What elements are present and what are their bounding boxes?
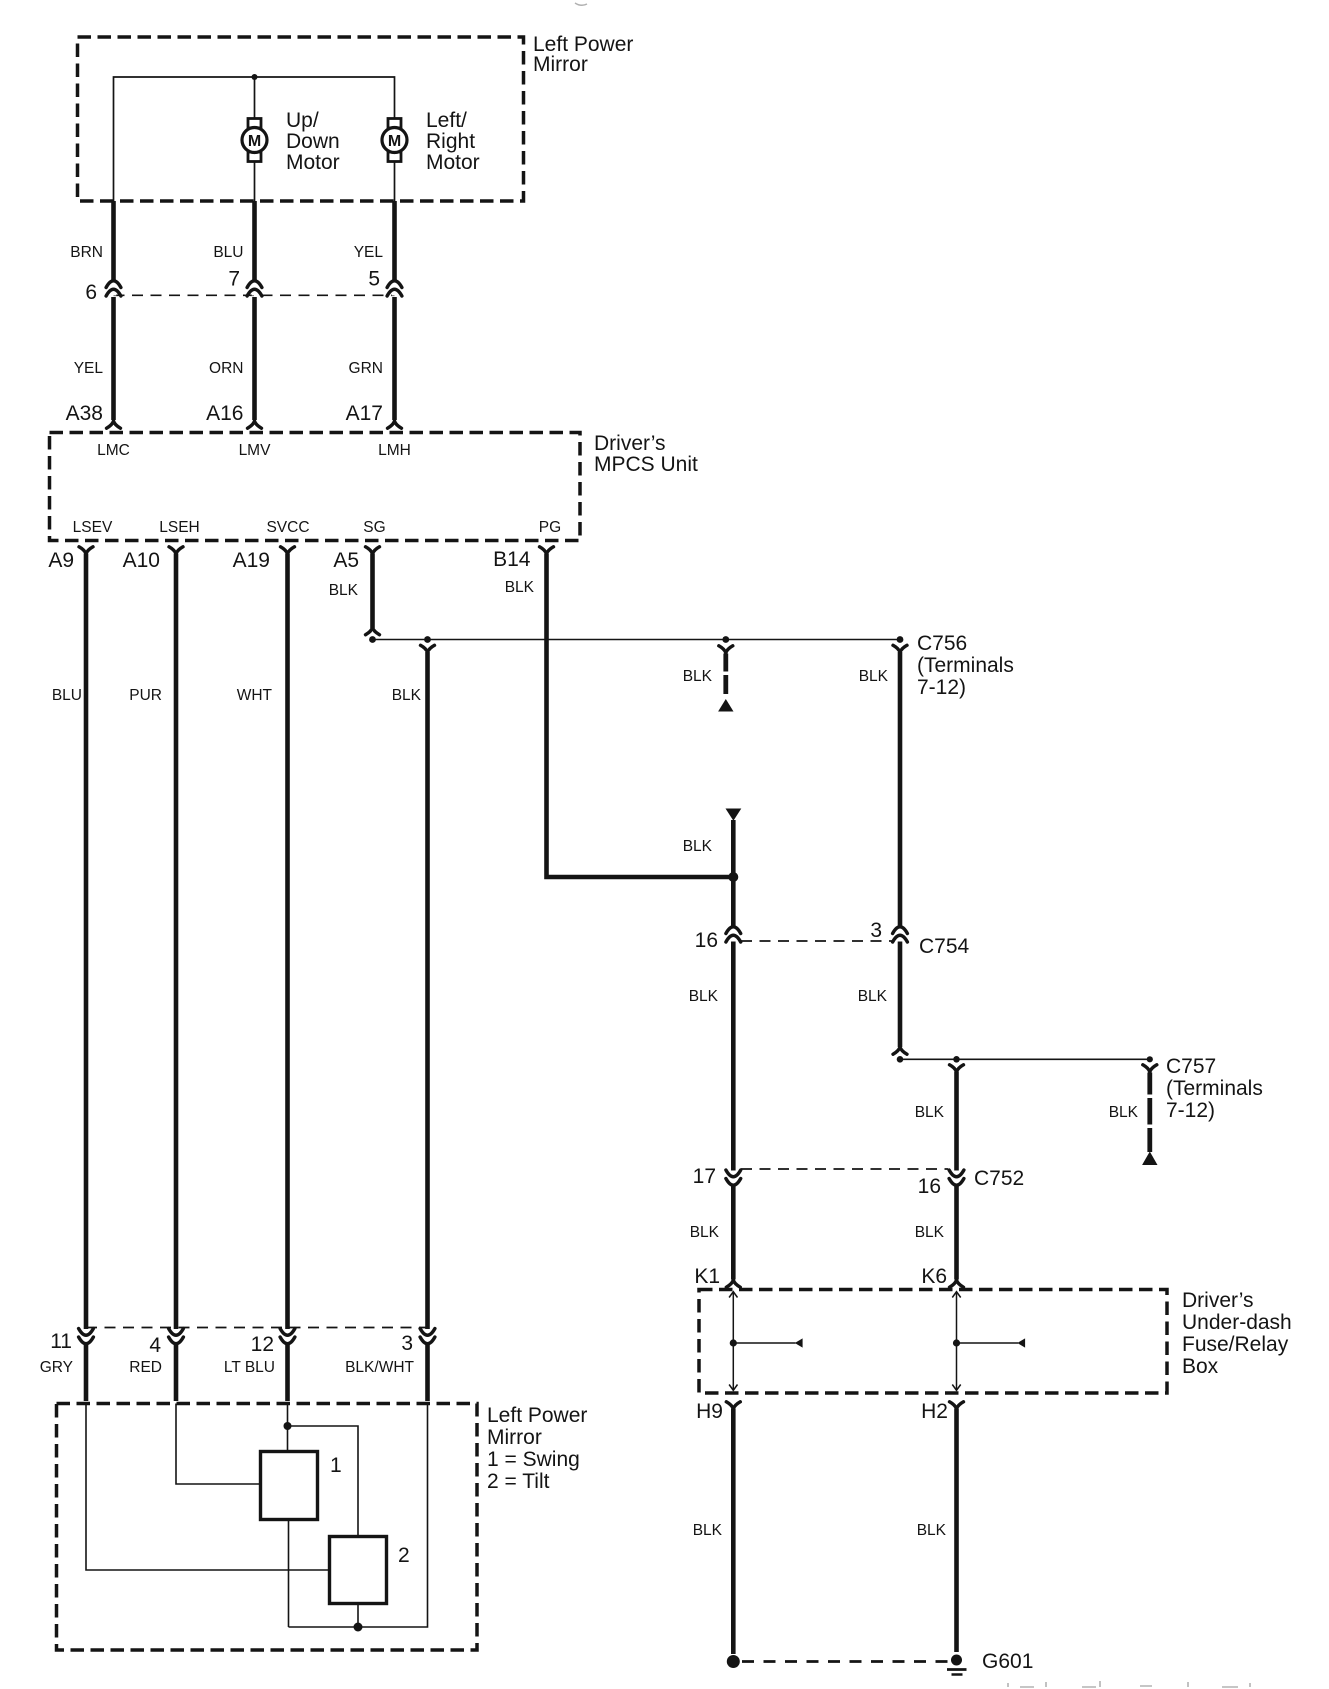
off-page arrow (down) into wire bbox=[726, 809, 742, 821]
svg-text:(Terminals: (Terminals bbox=[917, 654, 1014, 677]
svg-text:MPCS Unit: MPCS Unit bbox=[594, 453, 698, 476]
connector halves pin 5 bbox=[387, 281, 402, 296]
ground G601 bbox=[947, 1655, 967, 1675]
svg-text:11: 11 bbox=[50, 1330, 72, 1353]
connector halves C752 right bbox=[949, 1170, 964, 1185]
svg-text:K6: K6 bbox=[921, 1265, 947, 1288]
node: splice S6 bbox=[897, 1056, 904, 1063]
svg-text:2 = Tilt: 2 = Tilt bbox=[487, 1470, 550, 1493]
internal arrow left bbox=[795, 1338, 803, 1347]
C752 dashed link bbox=[741, 1168, 948, 1170]
svg-text:WHT: WHT bbox=[237, 687, 273, 704]
svg-text:BLK: BLK bbox=[683, 668, 713, 685]
svg-text:BLK/WHT: BLK/WHT bbox=[345, 1359, 414, 1376]
svg-text:Down: Down bbox=[286, 130, 340, 153]
wire: off-page stub (dashed) bbox=[723, 654, 728, 695]
terminal fork H2 bbox=[950, 1402, 964, 1409]
svg-text:1: 1 bbox=[330, 1454, 342, 1477]
svg-text:5: 5 bbox=[368, 268, 380, 291]
Driver's Under-dash Fuse/Relay Box bbox=[699, 1290, 1167, 1394]
svg-text:3: 3 bbox=[870, 919, 882, 942]
connector halves pin 12 bbox=[280, 1329, 295, 1344]
svg-text:6: 6 bbox=[85, 281, 97, 304]
connector row (mirror connector) dashed link bbox=[114, 294, 395, 296]
svg-text:BLK: BLK bbox=[689, 988, 719, 1005]
wire: BLU from A9 to pin 11 bbox=[84, 554, 89, 1402]
wire: pin 4 to switch 1 left bbox=[176, 1404, 260, 1485]
svg-text:Driver’s: Driver’s bbox=[594, 432, 666, 455]
svg-text:LSEV: LSEV bbox=[73, 519, 113, 536]
svg-text:H9: H9 bbox=[696, 1400, 723, 1423]
fuse box internal path K6-H2 bbox=[952, 1292, 1018, 1391]
svg-text:BLK: BLK bbox=[392, 687, 422, 704]
svg-text:Right: Right bbox=[426, 130, 475, 153]
terminal fork A9 bbox=[79, 547, 93, 554]
ground tie dashed line bbox=[742, 1660, 950, 1663]
svg-text:Motor: Motor bbox=[286, 151, 340, 174]
svg-text:ORN: ORN bbox=[209, 360, 243, 377]
svg-text:B14: B14 bbox=[493, 548, 531, 571]
motor M2 Left/Right bbox=[382, 119, 407, 162]
svg-text:LMC: LMC bbox=[97, 442, 130, 459]
svg-text:A38: A38 bbox=[66, 402, 103, 425]
svg-text:3: 3 bbox=[401, 1332, 413, 1355]
svg-text:BLK: BLK bbox=[329, 582, 359, 599]
svg-text:A9: A9 bbox=[48, 549, 74, 572]
wire: BLK long wire to pin 3 bbox=[425, 652, 430, 1401]
svg-text:H2: H2 bbox=[921, 1400, 948, 1423]
terminal fork stub S3 bbox=[719, 646, 733, 653]
faint scan artifact top edge bbox=[575, 3, 587, 5]
wire: BRN lead to pin 6 bbox=[111, 201, 116, 283]
wire: BLK to C756 bbox=[898, 652, 903, 1047]
wire: pin 3 down and to output bus bbox=[289, 1404, 428, 1628]
svg-text:G601: G601 bbox=[982, 1650, 1033, 1673]
svg-text:C754: C754 bbox=[919, 935, 970, 958]
svg-text:LT BLU: LT BLU bbox=[224, 1359, 275, 1376]
wire: pin 11 to switch 2 left bbox=[86, 1404, 329, 1571]
node: splice S5 (B14 joins trunk) bbox=[728, 872, 738, 882]
svg-text:BLK: BLK bbox=[858, 988, 888, 1005]
node: fuse box tap left bbox=[730, 1339, 737, 1346]
svg-text:YEL: YEL bbox=[74, 360, 104, 377]
wire: BLK to K6 bbox=[954, 1072, 959, 1280]
svg-text:SVCC: SVCC bbox=[266, 519, 309, 536]
terminal fork A10 bbox=[169, 547, 183, 554]
svg-text:BLK: BLK bbox=[505, 579, 535, 596]
off-page arrow (up) C757 bbox=[1142, 1152, 1157, 1166]
wire: switch 2 bottom to output bus bbox=[357, 1604, 359, 1628]
svg-text:2: 2 bbox=[398, 1544, 410, 1567]
Driver's MPCS Unit box bbox=[50, 433, 581, 541]
svg-text:BRN: BRN bbox=[70, 244, 103, 261]
svg-text:17: 17 bbox=[693, 1165, 716, 1188]
wire: switch 1 bottom to output bus bbox=[288, 1520, 290, 1628]
terminal fork K1 bbox=[726, 1280, 740, 1287]
svg-text:PUR: PUR bbox=[129, 687, 162, 704]
svg-text:LMH: LMH bbox=[378, 442, 411, 459]
wire: mirror internal bus bbox=[114, 77, 395, 201]
svg-text:YEL: YEL bbox=[354, 244, 384, 261]
svg-text:Left/: Left/ bbox=[426, 109, 467, 132]
wire: BLK H9 to ground splice bbox=[731, 1409, 736, 1655]
node: splice S2 bbox=[424, 636, 431, 643]
svg-text:PG: PG bbox=[539, 519, 561, 536]
svg-text:A17: A17 bbox=[346, 402, 383, 425]
terminal fork C756 wire lower bbox=[893, 1047, 907, 1054]
node: ground splice terminal bbox=[727, 1655, 740, 1668]
svg-text:M: M bbox=[248, 133, 261, 150]
svg-text:GRY: GRY bbox=[40, 1359, 73, 1376]
svg-text:A19: A19 bbox=[233, 549, 270, 572]
terminal fork A5 bbox=[366, 547, 380, 554]
fuse box internal path K1-H9 bbox=[729, 1292, 795, 1391]
terminal fork H9 bbox=[726, 1402, 740, 1409]
node: fuse box tap right bbox=[953, 1339, 960, 1346]
svg-text:C757: C757 bbox=[1166, 1055, 1216, 1078]
node: splice S7 bbox=[953, 1056, 960, 1063]
terminal fork BLK long wire bbox=[421, 645, 435, 652]
terminal fork K6 branch upper bbox=[950, 1065, 964, 1072]
wire: ORN to A16 bbox=[252, 297, 257, 420]
C754 dashed link bbox=[741, 940, 892, 942]
svg-text:BLK: BLK bbox=[915, 1104, 945, 1121]
svg-text:Under-dash: Under-dash bbox=[1182, 1311, 1292, 1334]
wire: GRN to A17 bbox=[392, 297, 397, 420]
svg-text:A10: A10 bbox=[123, 549, 160, 572]
svg-text:Up/: Up/ bbox=[286, 109, 319, 132]
terminal fork A5 lower bbox=[366, 628, 380, 635]
svg-text:M: M bbox=[388, 133, 401, 150]
connector halves pin 3 bbox=[420, 1329, 435, 1344]
svg-text:BLK: BLK bbox=[915, 1224, 945, 1241]
wire: splice bus 2 (thin) bbox=[900, 1058, 1150, 1060]
terminal fork B14 bbox=[540, 547, 554, 554]
svg-text:7: 7 bbox=[228, 268, 240, 291]
svg-text:7-12): 7-12) bbox=[917, 676, 966, 699]
faint scan artifacts bottom edge bbox=[1008, 1681, 1250, 1687]
svg-text:BLK: BLK bbox=[693, 1522, 723, 1539]
off-page arrow (up) bbox=[718, 699, 733, 712]
svg-text:Mirror: Mirror bbox=[533, 53, 588, 76]
terminal fork A16 bbox=[248, 421, 262, 428]
svg-text:BLK: BLK bbox=[859, 668, 889, 685]
svg-text:C756: C756 bbox=[917, 632, 967, 655]
node: splice S3 bbox=[722, 636, 729, 643]
wire: branch to switch 2 top bbox=[288, 1426, 359, 1536]
wire: BLK ground trunk left bbox=[731, 820, 736, 1280]
terminal fork A38 bbox=[107, 421, 121, 428]
switch 1 (Swing) bbox=[261, 1452, 318, 1520]
svg-text:RED: RED bbox=[129, 1359, 162, 1376]
connector halves C754 right bbox=[893, 927, 908, 942]
svg-text:(Terminals: (Terminals bbox=[1166, 1077, 1263, 1100]
svg-text:4: 4 bbox=[149, 1334, 161, 1357]
svg-text:K1: K1 bbox=[694, 1265, 720, 1288]
svg-text:A5: A5 bbox=[333, 549, 359, 572]
wire: C757 off-page stub (dashed) bbox=[1147, 1073, 1152, 1153]
svg-text:BLK: BLK bbox=[917, 1522, 947, 1539]
connector row dashed link bbox=[86, 1327, 428, 1329]
svg-text:C752: C752 bbox=[974, 1167, 1024, 1190]
svg-text:Mirror: Mirror bbox=[487, 1426, 542, 1449]
wire: BLU lead to pin 7 bbox=[252, 201, 257, 283]
svg-text:BLU: BLU bbox=[52, 687, 82, 704]
motor M1 Up/Down bbox=[242, 119, 267, 162]
connector halves C752 left bbox=[726, 1170, 741, 1185]
connector halves C754 left bbox=[726, 927, 741, 942]
connector halves pin 7 bbox=[247, 281, 262, 296]
wire: BLK H2 to ground bbox=[954, 1409, 959, 1653]
svg-text:Motor: Motor bbox=[426, 151, 480, 174]
wire: pin 12 to switch 1 top bbox=[287, 1404, 289, 1452]
svg-text:BLU: BLU bbox=[213, 244, 243, 261]
svg-text:GRN: GRN bbox=[349, 360, 383, 377]
svg-text:LSEH: LSEH bbox=[159, 519, 200, 536]
connector halves pin 11 bbox=[79, 1329, 94, 1344]
svg-text:Driver’s: Driver’s bbox=[1182, 1289, 1254, 1312]
svg-text:12: 12 bbox=[251, 1333, 274, 1356]
svg-text:1 = Swing: 1 = Swing bbox=[487, 1448, 580, 1471]
terminal fork C756 upper bbox=[893, 645, 907, 652]
wire: WHT from A19 to pin 12 bbox=[285, 554, 290, 1402]
switch 2 (Tilt) bbox=[330, 1537, 387, 1604]
svg-text:LMV: LMV bbox=[239, 442, 272, 459]
terminal fork A17 bbox=[388, 421, 402, 428]
node: splice S1 bbox=[369, 636, 376, 643]
wire: BLK from A5 bbox=[370, 554, 375, 629]
internal arrow right bbox=[1017, 1338, 1025, 1347]
svg-text:Box: Box bbox=[1182, 1355, 1219, 1378]
terminal fork A19 bbox=[281, 547, 295, 554]
svg-text:SG: SG bbox=[363, 519, 385, 536]
svg-text:BLK: BLK bbox=[1109, 1104, 1139, 1121]
node: splice S4 bbox=[897, 636, 904, 643]
Left Power Mirror switch box bbox=[57, 1404, 478, 1651]
node: splice S8 bbox=[1147, 1056, 1153, 1062]
wire: M2 lower lead bbox=[394, 162, 396, 201]
Left Power Mirror enclosure (top) bbox=[78, 37, 524, 201]
node: motor bus junction bbox=[252, 74, 258, 80]
node: output bus junction bbox=[354, 1623, 363, 1632]
svg-text:BLK: BLK bbox=[690, 1224, 720, 1241]
svg-text:Fuse/Relay: Fuse/Relay bbox=[1182, 1333, 1289, 1356]
svg-text:16: 16 bbox=[918, 1175, 941, 1198]
wire: YEL lead to pin 5 bbox=[392, 201, 397, 283]
wire: splice bus (thin) bbox=[373, 639, 901, 641]
connector halves pin 6 bbox=[106, 281, 121, 296]
wire: BLK from B14 to ground splice bbox=[547, 554, 731, 878]
wire: up/down motor feed bbox=[254, 77, 256, 119]
node: switch feed junction bbox=[284, 1422, 292, 1430]
terminal fork K6 bbox=[950, 1280, 964, 1287]
wire: PUR from A10 to pin 4 bbox=[174, 554, 179, 1402]
svg-text:A16: A16 bbox=[206, 402, 243, 425]
connector halves pin 4 bbox=[169, 1329, 184, 1344]
svg-text:Left Power: Left Power bbox=[487, 1404, 587, 1427]
wire: M1 lower lead bbox=[254, 162, 256, 201]
svg-text:7-12): 7-12) bbox=[1166, 1099, 1215, 1122]
wire: YEL to A38 bbox=[111, 297, 116, 420]
svg-text:BLK: BLK bbox=[683, 838, 713, 855]
terminal fork C757 stub bbox=[1143, 1065, 1157, 1072]
svg-text:16: 16 bbox=[695, 929, 718, 952]
